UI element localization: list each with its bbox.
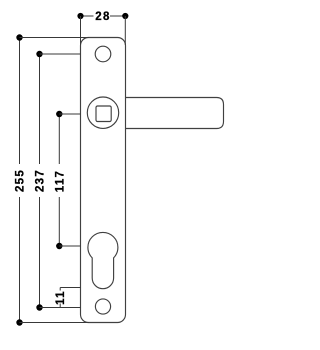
dimension 117 end dots [56, 111, 62, 117]
dimension 255 end dots [16, 34, 22, 40]
dimension 28 line [81, 15, 126, 17]
dimension 237 end dots [36, 51, 42, 57]
dimension 117 line [58, 114, 60, 246]
lever handle [126, 98, 224, 129]
dimension 28 extension lines [81, 16, 126, 45]
svg-text:255: 255 [15, 169, 27, 192]
dimension 11 line [59, 288, 61, 308]
dimension 117 leader lines [59, 114, 80, 246]
bottom screw hole [95, 299, 110, 314]
dimension 237 label [35, 169, 47, 192]
dimension 237 line [39, 54, 41, 308]
dimension 28 end dots [77, 13, 83, 19]
svg-text:11: 11 [55, 290, 67, 305]
dimension 255 line [19, 38, 21, 323]
spindle square hole [96, 106, 111, 122]
backplate outline [81, 38, 126, 323]
svg-text:28: 28 [95, 11, 110, 23]
dimension 237 leader lines [40, 54, 81, 308]
svg-text:237: 237 [35, 169, 47, 192]
dimension 11 label [55, 290, 67, 305]
dimension 11 tick lines [60, 287, 80, 289]
euro cylinder cutout [88, 232, 118, 288]
svg-text:117: 117 [54, 170, 66, 192]
spindle rose circle [87, 97, 118, 128]
dimension 255 label [15, 169, 27, 192]
dimension 117 label [54, 170, 66, 192]
dimension 255 leader lines [20, 38, 90, 323]
top screw hole [95, 46, 111, 62]
dimension 28 label [95, 11, 110, 23]
